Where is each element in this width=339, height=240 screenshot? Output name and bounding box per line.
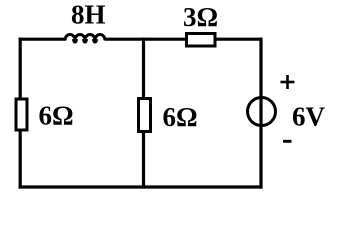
resistor 6ohm left box (16, 99, 27, 130)
wire right branch (259, 38, 262, 189)
resistor 6ohm middle box (139, 99, 151, 132)
polarity plus (281, 75, 295, 89)
wire middle branch (142, 38, 145, 189)
wire left branch (19, 38, 22, 189)
inductor L1 8H coil (65, 35, 105, 43)
svg-text:6Ω: 6Ω (163, 102, 198, 132)
wire top-left segment (19, 38, 66, 41)
svg-text:3Ω: 3Ω (183, 2, 218, 32)
wire top-middle segment (105, 38, 263, 41)
svg-text:6Ω: 6Ω (39, 101, 74, 131)
voltage source V1 circle (248, 98, 276, 126)
resistor 3ohm box (187, 34, 216, 47)
wire bottom segment (19, 185, 263, 188)
svg-text:6V: 6V (292, 102, 326, 132)
polarity minus (283, 140, 292, 143)
svg-text:8H: 8H (71, 0, 106, 30)
